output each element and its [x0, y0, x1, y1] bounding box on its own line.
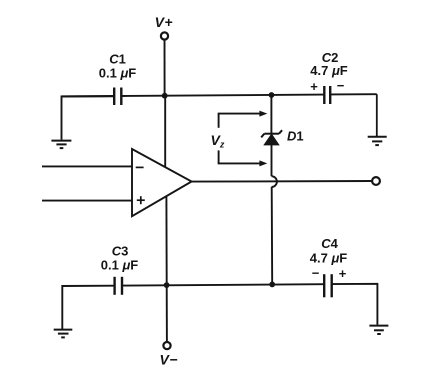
- capacitor C1: [99, 51, 137, 105]
- wire bottom rail left: [62, 286, 114, 329]
- wire C2 to ground: [376, 94, 378, 136]
- svg-text:4.7 μF: 4.7 μF: [310, 251, 348, 266]
- wire C1 to ground: [62, 96, 114, 139]
- wire rail to zener D1: [270, 95, 272, 134]
- junction V+ rail: [162, 93, 168, 99]
- wire op-amp bottom to V-: [165, 197, 168, 342]
- svg-text:4.7 μF: 4.7 μF: [310, 63, 348, 78]
- svg-text:−: −: [337, 78, 345, 93]
- wire top rail C1 to C2: [122, 95, 324, 96]
- svg-text:0.1 μF: 0.1 μF: [99, 65, 137, 80]
- terminal output: [372, 177, 380, 185]
- ground (C3): [54, 330, 73, 338]
- wire op-amp output: [192, 180, 373, 183]
- svg-text:D1: D1: [287, 128, 304, 143]
- junction bottom rail / V-: [164, 282, 170, 288]
- svg-text:V−: V−: [159, 352, 178, 368]
- svg-text:C1: C1: [109, 51, 126, 66]
- ground (C1): [51, 141, 71, 149]
- terminal V+: [155, 14, 174, 39]
- wire hop to bottom rail: [271, 187, 274, 285]
- wire V+ rail to op-amp top: [164, 96, 166, 168]
- ground (C4): [369, 326, 388, 334]
- node Vz bracket and arrows: [211, 111, 268, 167]
- svg-text:C3: C3: [112, 243, 129, 258]
- wire V+ terminal to top rail: [164, 40, 166, 96]
- ground (C2): [368, 137, 387, 145]
- wire bottom rail C4 right: [331, 284, 377, 325]
- svg-text:0.1 μF: 0.1 μF: [101, 258, 139, 273]
- junction D1 rail: [269, 92, 275, 98]
- capacitor C4: [310, 236, 348, 297]
- svg-text:C4: C4: [321, 236, 338, 251]
- wire top rail: [62, 95, 114, 97]
- capacitor C2: [310, 50, 348, 104]
- wire hop over output line: [272, 176, 277, 187]
- junction bottom rail / zener: [269, 282, 275, 288]
- wire non-inverting input: [42, 200, 132, 202]
- svg-text:+: +: [310, 79, 318, 94]
- terminal V-: [159, 342, 178, 368]
- zener diode D1: [261, 128, 303, 145]
- capacitor C3: [101, 243, 139, 294]
- wire top rail C2 right: [330, 93, 376, 95]
- wire bottom rail C3 to C4: [123, 284, 324, 285]
- svg-text:+: +: [339, 266, 347, 281]
- wire zener to hop: [271, 145, 273, 176]
- svg-text:−: −: [312, 266, 320, 281]
- wire inverting input: [42, 165, 132, 167]
- op-amp U1: [132, 149, 192, 216]
- svg-text:V+: V+: [155, 14, 174, 30]
